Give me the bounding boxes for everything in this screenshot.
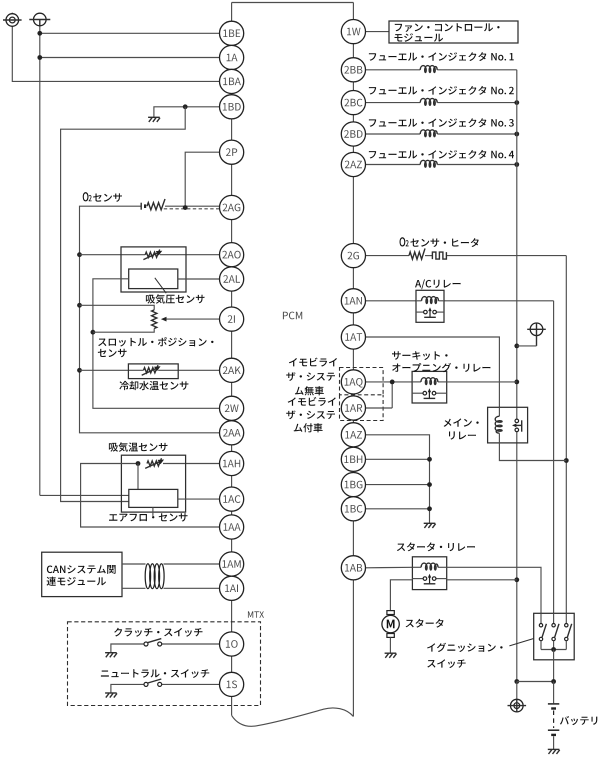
wire 1BH: [366, 458, 430, 460]
node from connector 1: [12, 13, 219, 82]
node B+ vertical from connector 2: [39, 20, 41, 496]
ignition switch leader line: [509, 639, 533, 646]
wire injector No.2: [366, 102, 421, 104]
pin 1AI: [220, 576, 244, 600]
wire neutral switch to ground: [111, 684, 144, 692]
B+ bus wire lower: [516, 432, 518, 682]
wire injector No.1: [366, 69, 421, 71]
MAP element box: [129, 269, 178, 289]
wire injector No.4: [366, 164, 421, 166]
ground (battery): [548, 748, 560, 750]
wire 2P to O2 line: [185, 152, 219, 207]
MTX dashed box: [68, 622, 261, 706]
PCM right bus wire: [352, 3, 354, 717]
pin 2BC: [341, 91, 365, 115]
label fuel injector No.2: [369, 86, 514, 95]
pin 1BG: [341, 473, 365, 497]
coolant temp sensor box: [128, 364, 178, 379]
junction: [514, 380, 519, 385]
junction: [427, 482, 432, 487]
pin 1AT: [341, 325, 365, 349]
main relay box: [488, 407, 528, 443]
immobiliser dashed box 2: [340, 395, 384, 421]
pin 1S: [220, 672, 244, 696]
wire 1W to fan module: [366, 31, 390, 33]
junction: [551, 679, 556, 684]
label fan control module line1: [395, 23, 500, 32]
junction: [514, 577, 519, 582]
clutch switch: [144, 642, 148, 646]
junction: [551, 647, 556, 652]
injector coil No.2: [420, 98, 437, 105]
pin 2BD: [341, 122, 365, 146]
PCM bottom continuation wire: [232, 708, 354, 726]
wire 1A: [40, 57, 220, 59]
label CAN module line2: [47, 577, 106, 586]
junction: [514, 162, 519, 167]
injector coil No.3: [420, 130, 437, 137]
wire neutral switch to 1S: [162, 683, 220, 685]
pin 2AK: [220, 358, 244, 382]
pin 1BE: [220, 21, 244, 45]
wire 1AT to main relay: [366, 337, 500, 407]
wire 1BD node down-left: [61, 107, 186, 502]
wire 2I wiper arrow: [167, 318, 220, 320]
wire O2 to 2AG: [165, 205, 220, 207]
label throttle position sensor line2: [98, 349, 127, 357]
wire starter motor to ground: [389, 637, 391, 653]
pin 1AA: [220, 515, 244, 539]
connector symbol D (double circle): [511, 699, 524, 712]
label CAN module line1: [47, 565, 116, 574]
heater coil: [432, 252, 446, 259]
wire starter relay contact to bus: [447, 579, 517, 581]
shield dashed wire: [164, 208, 220, 210]
wire clutch switch to ground: [111, 644, 144, 653]
wire 2AL: [178, 278, 220, 280]
label PCM: [283, 312, 302, 320]
wire 1BC: [366, 508, 430, 510]
wire 1AN: [366, 300, 417, 302]
junction: [77, 303, 82, 308]
junction: [37, 55, 42, 60]
label O2 sensor heater: [400, 237, 479, 247]
wire 1AB: [366, 566, 413, 569]
wire battery junction: [517, 681, 554, 683]
pin 1A: [220, 45, 244, 69]
label fan control module line2: [395, 33, 444, 42]
twisted pair: [145, 564, 150, 589]
leader line (MAP label): [155, 278, 166, 293]
intake pressure sensor box: [121, 247, 186, 292]
label air flow sensor: [109, 513, 188, 521]
fan control module box: [389, 21, 518, 43]
pin 2W: [220, 396, 244, 420]
pin 2AL: [220, 267, 244, 291]
wire to airflow sensor pin1: [40, 494, 129, 496]
wire 2AK row: [80, 369, 144, 371]
pin 1AR: [341, 396, 365, 420]
potentiometer (TPS): [152, 310, 157, 329]
label ignition switch line1: [427, 643, 502, 652]
label O2 sensor: [83, 192, 122, 202]
junction: [514, 679, 519, 684]
O2 sensor cell: [140, 203, 142, 210]
injector coil No.4: [420, 160, 437, 167]
junction: [564, 458, 569, 463]
resistor (O2 heater): [409, 248, 425, 259]
wire 1AH row: [163, 463, 220, 465]
pin 2I: [220, 307, 244, 331]
wire 1AZ: [366, 435, 430, 523]
pin 1O: [220, 632, 244, 656]
label immobiliser-less line2: [286, 372, 335, 381]
wire MAP element left pin: [93, 279, 220, 409]
ground (1BD): [148, 116, 160, 118]
label MTX: [248, 611, 264, 617]
wire 1BE: [40, 32, 220, 34]
pin 1AQ: [341, 370, 365, 394]
label starter relay: [397, 542, 475, 551]
pin 2P: [220, 140, 244, 164]
junction: [77, 368, 82, 373]
label fuel injector No.3: [369, 118, 514, 127]
label throttle position sensor line1: [98, 337, 213, 346]
wire throttle top: [80, 305, 155, 310]
junction: [183, 205, 188, 210]
wire 1AN down to ignition switch: [553, 301, 555, 614]
ignition switch common bar: [541, 649, 566, 651]
circuit opening relay: [412, 371, 447, 403]
label starter: [406, 619, 444, 628]
ground (neutral): [105, 692, 117, 694]
wire 1BG: [366, 484, 430, 486]
wire 1AR: [366, 407, 393, 409]
pin 1AH: [220, 451, 244, 475]
wire CAN H: [122, 563, 146, 565]
pin 1AC: [220, 487, 244, 511]
wire 1AC: [178, 498, 220, 500]
ignition switch contacts: [540, 613, 542, 623]
wire sensor-return bus: [80, 206, 220, 433]
wire 2AO row: [80, 254, 146, 256]
main relay contact: [515, 419, 519, 423]
connector symbol B (circle): [34, 13, 47, 26]
thermistor (MAP): [145, 249, 160, 257]
label circuit opening relay line2: [392, 363, 490, 372]
starter motor M: [387, 611, 394, 615]
starter relay: [412, 557, 446, 590]
wire 1AH-1AA common: [81, 464, 220, 528]
label A/C relay: [415, 279, 461, 289]
pin 1BH: [341, 447, 365, 471]
ground (clutch): [105, 652, 117, 654]
label immobiliser line1: [288, 397, 336, 406]
label fuel injector No.4: [369, 150, 514, 159]
PCM top wire: [232, 2, 354, 4]
neutral switch: [144, 682, 148, 686]
junction: [427, 506, 432, 511]
pin 1AZ: [341, 423, 365, 447]
wire 2G: [366, 255, 410, 257]
wire main relay coil to 2G line: [499, 443, 566, 461]
wire ignition common down: [553, 650, 555, 682]
junction: [514, 100, 519, 105]
MAF element bottom stub: [152, 507, 154, 516]
connector symbol A (double circle): [6, 14, 19, 27]
air flow sensor box: [121, 455, 185, 512]
wire starter relay coil to ignition switch: [447, 567, 541, 613]
immobiliser dashed box 1: [340, 368, 384, 395]
label immobiliser line3: [294, 423, 323, 432]
wire thermistor to element: [137, 464, 139, 490]
pin 1BA: [220, 69, 244, 93]
wire relay to bus: [447, 381, 517, 383]
wire CAN L: [122, 587, 146, 589]
wire battery to ground: [553, 736, 555, 749]
thermistor (coolant): [144, 365, 159, 373]
B+ bus wire upper: [516, 70, 518, 420]
pin 1BD: [220, 95, 244, 119]
thermistor (air temp): [147, 458, 162, 466]
label battery: [560, 716, 597, 725]
junction: [390, 380, 395, 385]
main relay coil: [498, 407, 500, 416]
pin 2BB: [341, 58, 365, 82]
pin 1BC: [341, 497, 365, 521]
label ignition switch line2: [427, 659, 465, 668]
label coolant temp sensor: [119, 381, 188, 390]
wire clutch switch to 1O: [162, 643, 220, 645]
label immobiliser-less line1: [289, 358, 337, 367]
label neutral switch: [101, 669, 209, 678]
label circuit opening relay line1: [392, 351, 448, 360]
junction: [91, 330, 96, 335]
junction: [427, 457, 432, 462]
label intake pressure sensor: [146, 294, 205, 304]
CAN module box: [42, 552, 122, 596]
junction: [514, 132, 519, 137]
connector symbol C (circle): [530, 323, 543, 336]
ground (starter): [385, 652, 397, 654]
pin 2AA: [220, 421, 244, 445]
pin 1AB: [341, 556, 365, 580]
label immobiliser-less line3: [295, 386, 324, 395]
label fuel injector No.1: [369, 52, 514, 61]
label immobiliser line2: [286, 411, 335, 420]
injector coil No.1: [420, 66, 437, 73]
wire 2G down to ignition switch: [565, 256, 567, 614]
junction: [183, 104, 188, 109]
label main relay line1: [444, 418, 479, 426]
label main relay line2: [449, 431, 476, 439]
wire starter relay contact to starter: [390, 580, 412, 611]
wire throttle bottom: [93, 329, 154, 333]
label intake air temp sensor: [109, 442, 168, 452]
junction: [77, 252, 82, 257]
wire injector No.3: [366, 133, 421, 135]
pin 2AZ: [341, 152, 365, 176]
ground (1AZ group): [424, 522, 436, 524]
wire to battery: [553, 682, 555, 704]
pin 2AO: [220, 243, 244, 267]
wire 1BD to ground: [154, 107, 220, 117]
junction: [37, 31, 42, 36]
resistor (O2 sensor): [147, 199, 165, 210]
PCM left bus wire: [231, 3, 233, 716]
label clutch switch: [114, 628, 202, 637]
wire 1AQ: [366, 381, 413, 383]
A/C relay: [416, 290, 444, 322]
pin 2AG: [220, 195, 244, 219]
ignition switch box: [534, 613, 575, 660]
pin 2G: [341, 244, 365, 268]
pin 1AN: [341, 289, 365, 313]
pin 1W: [341, 20, 365, 44]
wire connector C to bus: [517, 345, 537, 347]
battery: [548, 703, 559, 705]
MAF element box: [129, 489, 178, 507]
junction: [514, 344, 519, 349]
pin 1AM: [220, 552, 244, 576]
wire bus to connector D: [516, 682, 518, 700]
junction: [136, 461, 141, 466]
